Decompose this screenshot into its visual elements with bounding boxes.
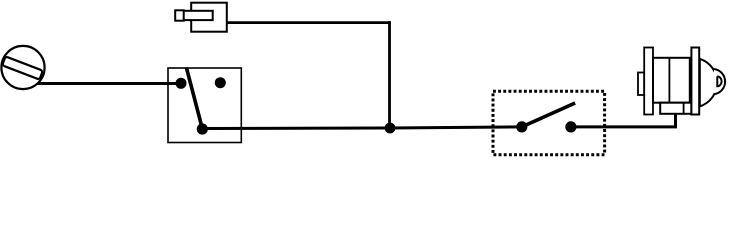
lamp E1 body inner line [668,58,670,103]
device T1 (slotted circle, left) [1,46,44,89]
switch S2 right terminal [565,121,576,132]
lamp E1 lens inner bump [717,76,721,86]
switch S1 common terminal (bottom) [197,123,208,134]
switch S1 unused terminal (top-right) [215,77,226,88]
lamp E1 mounting flange bar [644,48,653,115]
switch S1 blade (open, from box top edge down to common terminal) [187,68,203,129]
lamp E1 bottom terminal block [660,103,691,114]
lamp E1 right collar bar [691,48,699,115]
wire from slotted-circle device to switch S1 input terminal [34,82,181,85]
switch S2 blade (open) [522,103,575,127]
wire from plug P1 to top-right corner [227,21,391,24]
plug P1 blade bar [183,11,213,20]
plug P1 body box [191,3,227,32]
lamp E1 dome (bell reflector) [700,59,717,107]
vertical wire from top-right corner down to junction node N1 [388,21,391,128]
junction node N1 [385,123,396,134]
wire from junction node N1 into dotted enclosure to S2 left terminal [390,127,522,128]
lamp E1 terminal block divider [683,103,685,114]
wire from S1 common terminal to junction node N1 [202,127,390,131]
switch S1 enclosure box [168,68,241,143]
lamp E1 lens outer bump [714,69,725,94]
dotted enclosure around switch S2 [493,91,605,154]
wire from S2 right terminal to lamp E1 (with upward bend) [571,113,676,127]
lamp E1 body [653,58,690,103]
plug P1 blade tip tab [175,10,184,20]
lamp E1 mounting tab (left of flange) [638,73,644,96]
switch S1 input terminal (top-left) [176,78,187,89]
switch S2 left terminal [516,121,527,132]
